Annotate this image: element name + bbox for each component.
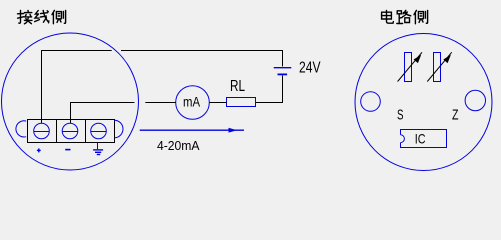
- svg-text:S: S: [397, 108, 404, 124]
- enclosure circle (wiring side): [2, 33, 139, 170]
- ammeter M1 circle: [176, 86, 210, 120]
- terminal screw 2 (-): [62, 123, 78, 139]
- svg-text:RL: RL: [230, 78, 245, 95]
- terminal screw 1 (+): [34, 123, 50, 139]
- terminal block left tab: [16, 121, 26, 137]
- terminal screw 3 (ground): [91, 123, 107, 139]
- current flow arrowhead: [229, 128, 238, 133]
- wire: resistor to ammeter: [209, 102, 226, 104]
- enclosure circle (circuit side): [355, 34, 492, 171]
- wire: top run to 24V supply positive: [121, 51, 283, 67]
- terminal block body: [28, 120, 115, 143]
- ground symbol (terminal 3): [93, 143, 103, 155]
- potentiometer S adjust arrow: [398, 52, 422, 81]
- terminal block right tab: [114, 120, 123, 138]
- svg-text:24V: 24V: [299, 59, 321, 76]
- battery B1 24V plates: [274, 68, 292, 75]
- mounting hole left: [361, 92, 381, 112]
- label title 接线侧 (wiring side): [18, 10, 66, 23]
- label - (terminal 2 polarity): [65, 149, 70, 151]
- wire: ammeter left to enclosure edge: [145, 102, 175, 104]
- svg-text:IC: IC: [415, 131, 426, 147]
- IC U1 body with notch: [401, 130, 447, 148]
- label title 电路侧 (circuit side): [382, 10, 428, 24]
- svg-text:Z: Z: [452, 108, 459, 124]
- svg-text:4-20mA: 4-20mA: [157, 138, 200, 153]
- potentiometer S body: [405, 53, 412, 82]
- current flow arrow line 4-20mA: [140, 129, 244, 131]
- mounting hole right: [465, 90, 485, 110]
- wire: enclosure edge to terminal 2 riser: [71, 103, 135, 124]
- svg-text:mA: mA: [183, 95, 200, 110]
- resistor RL: [227, 98, 256, 107]
- wire: terminal 1 riser and top run to enclosure edge: [42, 51, 112, 124]
- potentiometer Z body: [434, 53, 441, 82]
- wire: battery negative down and left to resistor RL: [256, 76, 283, 103]
- label + (terminal 1 polarity): [37, 148, 41, 152]
- potentiometer Z adjust arrow: [427, 52, 451, 81]
